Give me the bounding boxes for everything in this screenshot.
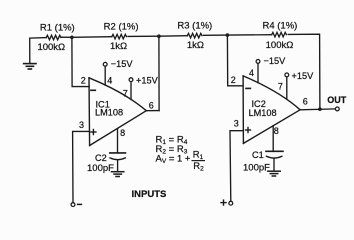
svg-text:4: 4 — [107, 75, 112, 85]
wire: R1 to node A — [61, 36, 72, 38]
svg-text:R1 (1%): R1 (1%) — [40, 22, 75, 33]
minus label at left input terminal — [78, 203, 82, 205]
resistor R4 — [272, 32, 287, 37]
svg-text:R4 (1%): R4 (1%) — [262, 20, 297, 31]
terminal: IC1 -15V supply — [103, 62, 107, 66]
IC2 inverting input minus sign — [246, 87, 250, 89]
wire: node A down to IC1 pin 2 — [72, 37, 89, 86]
wire: IC2 pin 7 stub — [286, 77, 288, 99]
plus label at right input terminal — [221, 200, 226, 205]
svg-text:AV = 1 +: AV = 1 + — [156, 153, 191, 165]
resistor R1 — [46, 35, 61, 40]
svg-text:+15V: +15V — [292, 71, 315, 81]
capacitor C2 — [110, 153, 126, 172]
junction node B — [157, 34, 161, 38]
svg-text:R1: R1 — [193, 150, 204, 162]
svg-text:1kΩ: 1kΩ — [110, 41, 127, 52]
terminal: plus input — [229, 201, 233, 205]
svg-text:R3 (1%): R3 (1%) — [177, 21, 212, 32]
svg-text:R2: R2 — [193, 161, 204, 173]
wire: node A to R2 — [72, 36, 112, 39]
svg-text:LM108: LM108 — [95, 108, 123, 118]
svg-text:1kΩ: 1kΩ — [187, 40, 204, 51]
wire: IC1 pin 7 stub — [130, 82, 132, 100]
svg-text:100pF: 100pF — [243, 162, 270, 173]
ground — [24, 64, 36, 69]
op-amp IC1 — [89, 78, 146, 146]
ground under C1 — [268, 171, 280, 176]
junction node C — [226, 33, 230, 37]
svg-text:6: 6 — [149, 100, 154, 110]
svg-text:100kΩ: 100kΩ — [266, 40, 294, 51]
svg-text:4: 4 — [249, 68, 254, 78]
wire: node C to R4 — [227, 34, 271, 36]
svg-text:2: 2 — [231, 75, 236, 85]
wire: IC1 pin 3 to minus input terminal — [73, 131, 90, 202]
op-amp IC2 — [243, 76, 300, 143]
wire: IC1 pin 4 stub — [104, 66, 106, 85]
terminal: IC2 +15V supply — [285, 73, 289, 77]
svg-text:7: 7 — [278, 81, 283, 91]
wire: R4 to right corner down to output node — [288, 34, 320, 109]
resistor R2 — [112, 34, 127, 39]
svg-text:3: 3 — [79, 120, 84, 130]
terminal: minus input — [71, 203, 75, 207]
svg-text:3: 3 — [234, 118, 239, 128]
junction node A — [70, 36, 74, 40]
IC1 non-inverting input plus sign — [91, 130, 96, 135]
wire: IC2 output pin 6 to OUT terminal — [300, 108, 335, 111]
wire: R2 to node B — [128, 35, 159, 37]
wire: IC2 pin 4 stub — [257, 63, 259, 82]
svg-text:100pF: 100pF — [87, 163, 114, 174]
wire: IC1 pin 8 stub to C2 — [117, 129, 119, 153]
wire: node B down to IC1 output — [158, 36, 160, 110]
svg-text:2: 2 — [81, 76, 86, 86]
IC1 inverting input minus sign — [91, 89, 95, 91]
svg-text:100kΩ: 100kΩ — [37, 42, 65, 53]
svg-text:6: 6 — [303, 97, 308, 107]
resistor R3 — [187, 33, 202, 38]
svg-text:C1: C1 — [252, 150, 264, 160]
wire: node B to R3 — [159, 35, 187, 38]
svg-text:−15V: −15V — [111, 59, 134, 69]
wire: IC2 pin 8 stub to C1 — [272, 126, 274, 152]
svg-text:OUT: OUT — [327, 95, 347, 105]
wire: IC1 output pin 6 — [146, 110, 159, 112]
wire: node C down to IC2 pin 2 — [227, 35, 243, 86]
svg-text:C2: C2 — [95, 153, 107, 163]
terminal: IC2 -15V supply — [256, 60, 260, 64]
svg-text:LM108: LM108 — [249, 108, 277, 118]
wire: left ground stem to top rail corner — [30, 38, 47, 64]
IC2 non-inverting input plus sign — [246, 128, 251, 133]
svg-text:INPUTS: INPUTS — [132, 189, 167, 200]
svg-text:7: 7 — [123, 88, 128, 98]
svg-text:−15V: −15V — [264, 56, 287, 66]
ground under C2 — [112, 172, 124, 177]
svg-text:+15V: +15V — [136, 75, 159, 85]
svg-text:8: 8 — [274, 126, 279, 136]
capacitor C1 — [266, 151, 283, 171]
junction output node — [318, 107, 322, 111]
fraction bar — [192, 160, 206, 162]
wire: R3 to node C — [204, 34, 228, 36]
terminal: IC1 +15V supply — [129, 78, 133, 82]
terminal: OUT — [335, 107, 339, 111]
svg-text:R2 (1%): R2 (1%) — [104, 21, 139, 32]
svg-text:8: 8 — [120, 128, 125, 138]
wire: IC2 pin 3 to plus input terminal — [230, 131, 243, 202]
